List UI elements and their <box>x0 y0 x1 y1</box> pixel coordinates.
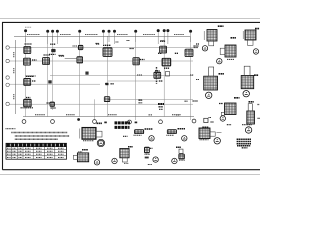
small hollow detail bottom right of plan <box>204 118 208 122</box>
column KZ r6c2 <box>50 102 55 106</box>
column KZ r2c1 <box>24 58 31 65</box>
title side marks <box>104 121 107 123</box>
top axis bubbles <box>24 29 192 33</box>
sheet edge line bottom <box>0 174 260 176</box>
row3 text strip <box>26 75 37 77</box>
left vertical dimension line <box>14 40 16 114</box>
tiny labels near columns <box>25 41 199 103</box>
detail M section <box>135 130 144 134</box>
drawing frame <box>3 22 261 169</box>
column KZ r4c1 <box>24 78 31 85</box>
bottom filled dot axis <box>77 118 80 121</box>
detail I section <box>120 149 129 158</box>
table header <box>7 144 67 147</box>
row grid lines <box>10 48 194 105</box>
faint text above axis dot 1 <box>25 26 32 28</box>
sheet edge line top <box>0 18 260 20</box>
column KZ r2c2 <box>43 58 50 65</box>
detail A section <box>207 30 217 42</box>
column cluster r5 <box>104 97 110 102</box>
small column r4c2 <box>48 80 51 83</box>
stirrup ladder detail <box>156 67 158 84</box>
intersection tick <box>106 83 109 85</box>
detail G section <box>247 111 255 124</box>
left axis bubbles <box>6 46 9 106</box>
misc text specks plan <box>21 41 200 108</box>
column blob above r2c3 <box>78 45 83 49</box>
column KZ r2c3 <box>77 57 83 63</box>
table column lines <box>12 143 55 159</box>
table cell text <box>7 148 64 157</box>
leader line r2c3 <box>65 58 77 60</box>
detail F section <box>225 103 237 115</box>
center text cluster <box>158 103 164 105</box>
table row lines <box>6 150 67 156</box>
column KZ r1c3 <box>103 48 112 57</box>
detail K section <box>176 146 181 148</box>
detail C section <box>225 45 236 57</box>
column KZ r2c4 <box>133 58 140 65</box>
detail D section <box>204 76 218 90</box>
column KZ r2c5 <box>162 58 171 66</box>
column KZ r6c1 <box>24 99 32 107</box>
column KZ r1c2 <box>51 49 55 52</box>
detail J section <box>144 147 149 153</box>
bottom dimension line <box>23 116 194 118</box>
column KZ r1c1 <box>24 47 31 54</box>
legend text block <box>242 124 252 126</box>
top dimension line <box>14 36 190 38</box>
column KZ r1c4 <box>160 46 167 53</box>
bottom axis bubbles <box>22 119 196 124</box>
top dimension text specks <box>27 34 184 36</box>
detail E section <box>241 76 254 89</box>
detail B section <box>245 30 256 40</box>
detail P section <box>199 128 210 139</box>
small circle I <box>112 158 117 163</box>
small text right edge <box>211 121 215 123</box>
top bubble stems <box>26 32 191 44</box>
column grid lines <box>26 36 191 120</box>
detail H section <box>77 153 88 162</box>
detail L section <box>82 128 96 140</box>
column KZ r3c1 <box>154 72 161 78</box>
small mark r3 <box>85 72 88 75</box>
detail N section <box>167 130 176 134</box>
column KZ r1c5 <box>185 49 193 56</box>
